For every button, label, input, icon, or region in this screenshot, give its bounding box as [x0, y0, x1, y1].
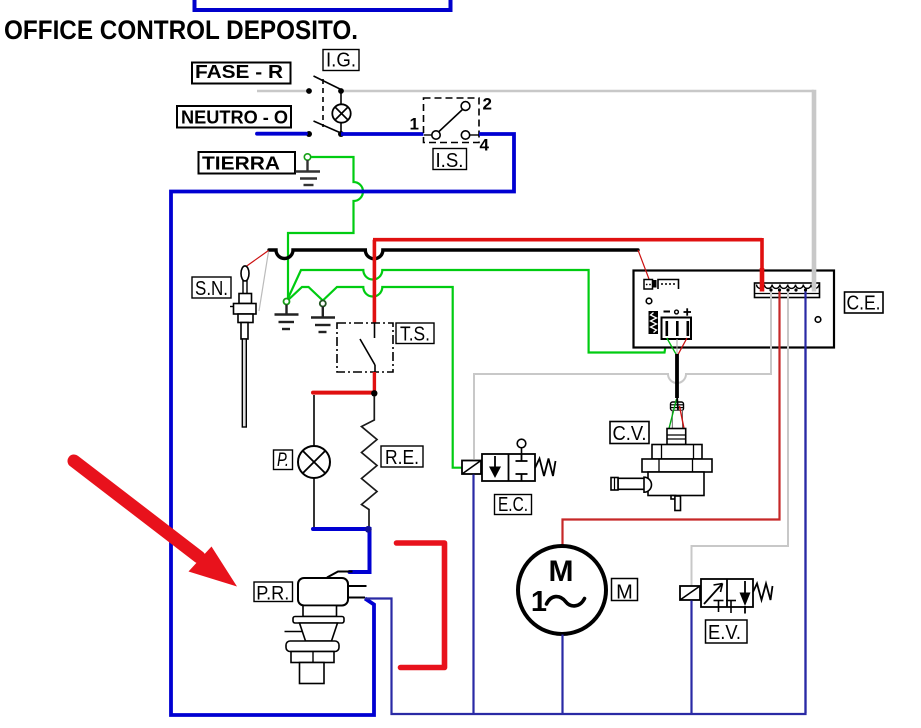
svg-text:2: 2 — [483, 95, 492, 114]
wire red thin C.E. to motor — [563, 292, 780, 547]
node I.G. pole1 right — [338, 88, 344, 94]
thermostat T.S. bottom lead — [374, 365, 376, 378]
label P. box — [274, 450, 293, 471]
C.E. top-left connector — [644, 280, 679, 290]
thermostat T.S. top contact — [374, 323, 376, 338]
wire gray thick vertical upper part — [812, 90, 817, 270]
node blue junction — [365, 526, 372, 533]
switch I.S. terminal 2 circle — [461, 102, 470, 111]
svg-text:I.S.: I.S. — [436, 150, 464, 172]
valve E.V. solenoid coil — [680, 586, 700, 600]
red bracket (annotation) — [397, 543, 445, 668]
label FASE - R — [192, 62, 291, 84]
lamp P circle — [298, 446, 330, 478]
wire NEUTRO blue left stub — [257, 132, 306, 136]
svg-text:FASE - R: FASE - R — [195, 62, 283, 82]
svg-text:M: M — [616, 582, 633, 604]
wire navy P.R. right terminal to bottom bus and up to C.E. — [365, 292, 806, 715]
switch I.S. terminal 4 circle — [461, 131, 469, 139]
ground A symbol — [275, 305, 299, 330]
svg-text:OFFICE CONTROL DEPOSITO.: OFFICE CONTROL DEPOSITO. — [4, 15, 358, 45]
valve E.C. blocked port — [516, 454, 528, 481]
C.E. comb connector — [649, 311, 659, 334]
node I.G. pole1 left — [306, 88, 312, 94]
wire blue E.C. to bus — [472, 475, 474, 714]
ground A terminal circle — [284, 299, 290, 305]
wire NEUTRO blue to I.S. — [341, 132, 424, 136]
label R.E. box — [381, 446, 423, 469]
wire gray2 C.E. to E.V. — [692, 292, 789, 586]
svg-text:P.R.: P.R. — [256, 584, 289, 605]
svg-text:E.C.: E.C. — [498, 494, 528, 516]
label TIERRA — [199, 152, 296, 174]
valve E.C. spring — [535, 459, 556, 477]
svg-text:I.G.: I.G. — [326, 50, 356, 72]
ground B terminal circle — [320, 301, 326, 307]
wire green line3: ground A, dip to ground B, right, down to E.C. — [287, 287, 463, 468]
switch I.G. pole 2 blade — [314, 121, 343, 134]
valve E.C. solenoid coil — [462, 461, 481, 475]
wire green line2: ground A up to y270, right, down, into C.E. connector — [287, 270, 667, 353]
pressure switch P.R. body — [285, 572, 367, 684]
svg-text:1: 1 — [410, 115, 419, 134]
valve E.V. exhaust T2 — [726, 600, 736, 602]
label E.C. box — [495, 494, 532, 516]
C.V. red lead — [680, 406, 685, 429]
C.E. center pigtail — [676, 339, 678, 354]
wire gray thick into terminal strip — [812, 268, 817, 292]
wire red lamp feed horizontal — [313, 391, 374, 395]
electronic unit C.E. box — [634, 271, 835, 348]
C.E. mounting hole right — [815, 317, 821, 323]
switch I.G. pole 1 blade — [314, 76, 344, 91]
label T.S. box — [396, 323, 434, 346]
svg-text:R.E.: R.E. — [385, 447, 419, 469]
switch I.S. contact stubs — [424, 134, 432, 136]
svg-text:C.V.: C.V. — [613, 423, 647, 445]
valve E.C. flow arrow — [494, 456, 496, 468]
thermostat T.S. dash-dot box — [337, 323, 393, 372]
red arrow (annotation) — [74, 461, 237, 587]
ground B symbol — [311, 307, 335, 333]
svg-text:E.V.: E.V. — [708, 622, 741, 644]
C.V. black lead remnant — [677, 396, 678, 410]
switch I.S. blade — [439, 110, 463, 132]
wire navy E.V. to bus — [690, 601, 692, 714]
svg-text:NEUTRO - O: NEUTRO - O — [181, 108, 288, 128]
node red junction — [371, 390, 377, 396]
valve E.V. diagonal arrow — [704, 584, 723, 605]
probe S.N. gray sense wire — [259, 252, 269, 312]
label P.R. box — [254, 582, 293, 605]
wire navy motor to bus — [561, 635, 563, 714]
svg-text:4: 4 — [480, 136, 490, 155]
svg-text:P.: P. — [277, 450, 289, 471]
node I.G. pole2 right — [338, 131, 344, 137]
flow meter C.V. body — [611, 429, 712, 511]
lamp I.G. indicator stub bottom — [340, 123, 342, 133]
valve E.V. down arrow — [744, 581, 746, 593]
valve E.C. body — [482, 454, 535, 481]
label M box — [612, 579, 638, 604]
wire FASE gray left stub — [257, 90, 309, 93]
wire red bus: T.S. up to horizontal, right to C.E. — [373, 238, 762, 330]
wire blue lamp bottom to P.R. — [313, 529, 370, 572]
wire thick blue main loop: I.S. right, down, left, down left side, bottom, up to P.R. — [171, 134, 514, 715]
wire red T.S. bottom to junction — [373, 372, 376, 393]
svg-text:T.S.: T.S. — [400, 324, 430, 346]
wire lamp P branch upper — [313, 395, 315, 447]
svg-text:M: M — [549, 555, 574, 588]
wire red thick into terminal strip — [760, 268, 765, 292]
black cable C.E. to C.V. — [675, 354, 679, 398]
valve E.C. pilot circle — [521, 448, 523, 455]
label I.G. box — [323, 50, 359, 72]
wire navy C.E. pin to bottom bus (over board) — [804, 292, 806, 714]
label S.N. box — [192, 277, 231, 300]
wire gray1 C.E. to E.C. (hops over black cable) — [474, 292, 771, 460]
C.V. plug — [671, 402, 684, 429]
label I.S. box — [433, 149, 467, 173]
switch I.S. dashed box — [424, 98, 480, 143]
C.E. 3-pin connector with - o + — [662, 308, 692, 339]
node I.G. pole2 left — [306, 131, 312, 137]
C.E. red pigtail — [678, 338, 688, 356]
C.V. green lead — [669, 399, 677, 429]
motor M circle — [518, 546, 606, 634]
label C.E. box — [845, 292, 884, 315]
svg-text:S.N.: S.N. — [195, 278, 228, 300]
probe S.N. body — [230, 266, 256, 427]
probe S.N. red sense wire — [246, 251, 269, 267]
svg-text:1: 1 — [531, 586, 547, 618]
ground TIERRA symbol — [296, 160, 321, 185]
valve E.V. exhaust T1 — [714, 600, 724, 602]
C.E. mounting hole left — [646, 298, 652, 304]
label NEUTRO - O — [177, 106, 291, 128]
wire black phase bus (with two hops) — [269, 250, 638, 259]
label C.V. box — [610, 422, 649, 446]
label E.V. box — [706, 620, 748, 644]
wire red thin bus end to C.E. connector — [638, 250, 649, 279]
wire FASE gray bus to C.E. — [341, 90, 814, 93]
lamp I.G. indicator stub top — [340, 93, 342, 105]
wire green TIERRA to ground A (hops over blue) — [288, 157, 363, 299]
svg-text:C.E.: C.E. — [847, 293, 881, 315]
valve E.V. spring — [753, 584, 773, 601]
lamp I.G. indicator circle — [332, 104, 350, 122]
valve E.V. body — [701, 579, 753, 607]
ground TIERRA terminal circle — [304, 154, 310, 160]
top blue frame (cut off) — [195, 0, 451, 10]
C.E. terminal strip — [755, 283, 820, 298]
switch I.S. terminal 1 circle — [432, 131, 440, 139]
resistor R.E. — [362, 396, 378, 528]
C.E. green pigtail — [667, 338, 677, 355]
thermostat T.S. blade — [360, 339, 375, 365]
svg-text:TIERRA: TIERRA — [202, 154, 280, 174]
wire lamp P branch lower — [313, 478, 315, 528]
switch I.G. coupling dashed link — [322, 79, 324, 127]
